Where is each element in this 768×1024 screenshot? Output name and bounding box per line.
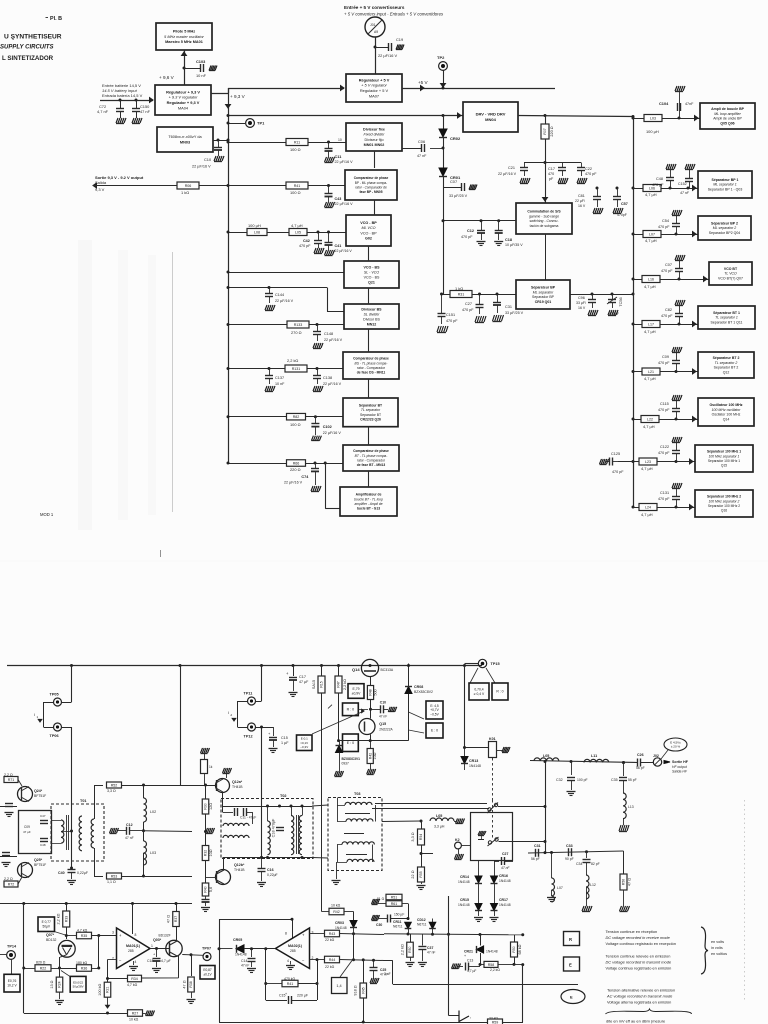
box oscillator 100 MHz Q14 bbox=[698, 398, 754, 426]
svg-text:TL separator: TL separator bbox=[361, 408, 381, 412]
svg-text:−0,3V: −0,3V bbox=[300, 745, 308, 749]
svg-text:55 pF: 55 pF bbox=[628, 778, 637, 782]
svg-text:10Ω: 10Ω bbox=[373, 752, 377, 759]
svg-text:TL VCO: TL VCO bbox=[724, 272, 737, 276]
svg-text:L23: L23 bbox=[645, 460, 651, 464]
svg-text:VCO - BS: VCO - BS bbox=[364, 265, 381, 269]
svg-text:tación de subgama: tación de subgama bbox=[530, 224, 559, 228]
svg-text:1N4148: 1N4148 bbox=[458, 903, 470, 907]
capacitor C104 bbox=[678, 117, 681, 120]
capacitor C122 bbox=[675, 460, 678, 463]
svg-text:CD12: CD12 bbox=[417, 918, 426, 922]
svg-text:rator - Comparador: rator - Comparador bbox=[357, 366, 386, 370]
svg-text:220 Ω: 220 Ω bbox=[550, 126, 554, 136]
svg-text:Q12b*: Q12b* bbox=[234, 863, 245, 867]
capacitor C12g bbox=[480, 219, 483, 222]
legend symbol E box bbox=[564, 957, 580, 971]
oscillator box MA01 Pilote 5 MHz bbox=[156, 23, 212, 50]
bus line diode network bbox=[384, 934, 523, 935]
resistor R58b bbox=[480, 964, 484, 966]
svg-text:Amplificateur de: Amplificateur de bbox=[356, 493, 382, 497]
box divider BS MN12 bbox=[344, 304, 399, 329]
svg-text:820 Ω: 820 Ω bbox=[36, 961, 46, 965]
svg-text:R40: R40 bbox=[204, 886, 208, 892]
svg-text:10 kΩ: 10 kΩ bbox=[331, 904, 341, 908]
test point TP15 bbox=[463, 664, 466, 667]
svg-text:22 µF/16 V: 22 µF/16 V bbox=[378, 53, 398, 58]
capacitor C125 bbox=[600, 459, 609, 465]
test point TP12 bbox=[248, 723, 256, 731]
inductor L03 bbox=[644, 115, 662, 122]
svg-text:T02: T02 bbox=[280, 794, 287, 798]
switch module box bbox=[471, 813, 513, 861]
T02 right windings bbox=[291, 816, 294, 855]
svg-text:+ 9,3 V: + 9,3 V bbox=[230, 94, 246, 99]
test point TP2 bbox=[439, 62, 448, 71]
svg-text:DC voltage recorded in receive: DC voltage recorded in receive mode bbox=[606, 935, 671, 940]
resistor R53 bbox=[107, 873, 122, 879]
wire filter to C32 C35 branches bbox=[570, 760, 573, 763]
svg-text:47 nF: 47 nF bbox=[140, 109, 151, 114]
Q03 emitter to TP07 bbox=[182, 954, 203, 957]
svg-text:R07: R07 bbox=[543, 128, 547, 134]
svg-text:4,7 µF: 4,7 µF bbox=[467, 969, 476, 973]
resistor R27 bbox=[24, 1013, 127, 1015]
resistor R44 bbox=[325, 956, 340, 963]
svg-text:22 µF/16 V: 22 µF/16 V bbox=[335, 249, 353, 253]
svg-text:47 µF: 47 µF bbox=[23, 830, 31, 834]
pointer to callout E0022 bbox=[61, 971, 71, 977]
T03 core bars bbox=[345, 813, 370, 815]
capacitor C137 bbox=[268, 367, 271, 370]
box VCO BS Q21 bbox=[344, 261, 399, 288]
svg-text:470 pF: 470 pF bbox=[446, 319, 458, 323]
resistor R82 bbox=[287, 413, 306, 420]
test point TP05 bbox=[70, 664, 73, 667]
capacitor C138 bbox=[316, 367, 319, 370]
svg-text:C48: C48 bbox=[40, 843, 46, 847]
T02 core bbox=[296, 815, 298, 854]
svg-text:918 Ω: 918 Ω bbox=[354, 985, 358, 995]
inductor L06 bbox=[643, 185, 661, 192]
svg-text:R82: R82 bbox=[293, 415, 300, 419]
svg-text:R36: R36 bbox=[81, 966, 88, 970]
svg-text:Entrée + 5 V convertisseurs: Entrée + 5 V convertisseurs bbox=[344, 5, 405, 10]
svg-text:CR16: CR16 bbox=[499, 874, 508, 878]
svg-text:1 µF: 1 µF bbox=[281, 741, 289, 745]
svg-text:Regulador + 9,3 V: Regulador + 9,3 V bbox=[167, 100, 200, 105]
callout lines from TP15 bbox=[470, 668, 478, 683]
svg-text:TP11: TP11 bbox=[244, 692, 253, 696]
svg-text:L08: L08 bbox=[254, 230, 260, 234]
row R133 to divider BS bbox=[228, 324, 344, 326]
wire CR01 node down to R31 row bbox=[443, 187, 445, 294]
svg-text:Régulateur + 5 V: Régulateur + 5 V bbox=[359, 77, 390, 82]
capacitor C25 bbox=[372, 959, 375, 962]
test point K2 bbox=[421, 853, 433, 855]
svg-text:TP05: TP05 bbox=[50, 693, 59, 697]
row L22 to oscillator 100MHz bbox=[632, 418, 635, 421]
test point TP14 bbox=[0, 954, 6, 956]
capacitor C151 bbox=[441, 294, 443, 313]
capacitor C31s bbox=[497, 294, 499, 302]
svg-text:0,70,4: 0,70,4 bbox=[474, 687, 483, 691]
capacitor C30 bbox=[372, 915, 380, 921]
svg-text:rator - Comparador: rator - Comparador bbox=[357, 459, 386, 463]
svg-text:R24: R24 bbox=[58, 981, 62, 987]
row R31 to separator BP bbox=[442, 294, 517, 296]
svg-text:8: 8 bbox=[285, 932, 287, 936]
svg-text:Pl. B: Pl. B bbox=[50, 16, 62, 22]
svg-text:13 Ω: 13 Ω bbox=[50, 980, 54, 988]
svg-text:1N4148: 1N4148 bbox=[235, 953, 247, 957]
opamp MA02 pin2 row bbox=[310, 959, 325, 961]
svg-text:22 µF/16 V: 22 µF/16 V bbox=[335, 160, 354, 164]
svg-text:90 pF: 90 pF bbox=[565, 857, 574, 861]
svg-text:47 nF: 47 nF bbox=[125, 836, 134, 840]
svg-text:100 µH: 100 µH bbox=[248, 223, 261, 228]
svg-text:R56: R56 bbox=[622, 879, 626, 885]
svg-text:51 Ω: 51 Ω bbox=[377, 897, 385, 901]
svg-text:E,79: E,79 bbox=[353, 687, 360, 691]
svg-text:+: + bbox=[285, 992, 287, 996]
T03 right verticals bbox=[371, 822, 373, 845]
relay contact 2 bbox=[488, 841, 491, 844]
svg-text:L05: L05 bbox=[295, 230, 301, 234]
wire MA02 top to pin8 bbox=[291, 918, 294, 921]
svg-text:R38: R38 bbox=[189, 981, 193, 987]
capacitor C34 bbox=[586, 852, 588, 858]
svg-text:C41: C41 bbox=[335, 244, 342, 248]
T02 internal bottom line bbox=[223, 857, 313, 859]
resistor R34 bbox=[128, 975, 142, 982]
capacitor C26 bbox=[637, 759, 639, 767]
svg-text:L03: L03 bbox=[150, 851, 156, 855]
svg-text:Q21: Q21 bbox=[368, 280, 375, 284]
box commutation de gamme bbox=[516, 203, 572, 234]
T03 winding 1 bbox=[345, 802, 372, 805]
svg-text:+ 5 V converters input - Entra: + 5 V converters input - Entrada + 5 V c… bbox=[344, 12, 444, 17]
svg-text:CR11: CR11 bbox=[393, 920, 402, 924]
svg-text:5 MHz master oscillator: 5 MHz master oscillator bbox=[164, 35, 204, 39]
svg-text:0,22µF: 0,22µF bbox=[77, 871, 88, 875]
svg-text:68 kΩ: 68 kΩ bbox=[518, 944, 522, 954]
wire switch node to C31 row bbox=[545, 807, 547, 854]
diodes CR14 CR16 bbox=[478, 861, 480, 877]
svg-text:1 kΩ: 1 kΩ bbox=[181, 190, 189, 195]
capacitor C152 bbox=[687, 187, 690, 190]
inductor L05b bbox=[420, 820, 423, 823]
capacitor C17b polarized bbox=[292, 664, 295, 667]
svg-text:4,7 µH: 4,7 µH bbox=[644, 329, 656, 334]
svg-text:≥ 0,4 V: ≥ 0,4 V bbox=[474, 692, 485, 696]
svg-text:C40: C40 bbox=[58, 871, 65, 875]
svg-text:C96: C96 bbox=[578, 296, 585, 300]
svg-text:100 MHz oscillator: 100 MHz oscillator bbox=[712, 408, 742, 412]
svg-text:C152: C152 bbox=[678, 182, 687, 186]
resistor R37 vertical bbox=[176, 904, 178, 912]
svg-text:Oscillateur 100 MHz: Oscillateur 100 MHz bbox=[709, 403, 742, 407]
test point TP1 bbox=[228, 123, 245, 125]
svg-text:BT - TL phase compa-: BT - TL phase compa- bbox=[355, 454, 389, 458]
transistor Q25 bbox=[18, 863, 33, 878]
svg-text:4,7 µH: 4,7 µH bbox=[643, 424, 655, 429]
svg-text:R41: R41 bbox=[287, 982, 294, 986]
svg-text:J02: J02 bbox=[653, 754, 659, 758]
svg-text:C31: C31 bbox=[505, 305, 512, 309]
svg-text:10 nF: 10 nF bbox=[275, 382, 285, 386]
scan streak bbox=[172, 252, 174, 512]
svg-text:22 µF/16 V: 22 µF/16 V bbox=[275, 299, 294, 303]
svg-text:Q14: Q14 bbox=[352, 667, 360, 672]
cap inside switch box bbox=[478, 831, 486, 836]
inductor L07f bbox=[551, 853, 553, 879]
svg-text:R131: R131 bbox=[292, 367, 301, 371]
T02 internal top line bbox=[223, 806, 313, 808]
svg-text:Ampli de uncle BP: Ampli de uncle BP bbox=[713, 117, 742, 121]
svg-text:Ampli de boucle BP: Ampli de boucle BP bbox=[711, 107, 745, 111]
capacitor C14 bbox=[251, 949, 253, 957]
svg-text:C47: C47 bbox=[40, 814, 46, 818]
Q03 base bar bbox=[169, 943, 171, 956]
svg-text:MN12: MN12 bbox=[367, 322, 377, 326]
svg-text:C138: C138 bbox=[323, 376, 332, 380]
svg-text:C07: C07 bbox=[665, 263, 672, 267]
resistor R40 vertical bbox=[202, 883, 209, 896]
capacitor C13 bbox=[452, 964, 461, 969]
T03 winding stub bbox=[337, 798, 339, 806]
svg-text:Régulateur + 9,3 V: Régulateur + 9,3 V bbox=[166, 89, 200, 94]
svg-text:BFT51F: BFT51F bbox=[34, 863, 46, 867]
opamp MA01 bbox=[132, 904, 134, 935]
svg-text:Q05 Q06: Q05 Q06 bbox=[720, 122, 734, 126]
capacitor C07 33uF bbox=[461, 183, 463, 191]
svg-text:C18: C18 bbox=[505, 238, 512, 242]
row to fixed divider bbox=[228, 142, 346, 144]
wire +5V out bbox=[402, 88, 555, 90]
inductor L02 bbox=[143, 785, 145, 798]
resistor R32 vertical bbox=[205, 845, 207, 848]
capacitor C148 bbox=[316, 323, 319, 326]
T03 bottom ground bbox=[336, 862, 338, 879]
transistor Q15b bbox=[359, 719, 375, 735]
inductor L17 bbox=[642, 321, 660, 328]
svg-text:22 µF/: 22 µF/ bbox=[575, 199, 585, 203]
box loop amplifier BT G13 bbox=[340, 487, 397, 516]
svg-text:R50: R50 bbox=[512, 946, 516, 952]
svg-text:2,2 kΩ: 2,2 kΩ bbox=[490, 968, 500, 972]
capacitor C22b bbox=[422, 934, 424, 945]
svg-text:MA04: MA04 bbox=[178, 105, 189, 110]
callout E076 bbox=[4, 974, 20, 992]
resistor R133 bbox=[287, 321, 309, 328]
callouts from module bbox=[409, 712, 425, 719]
box separator BT1 Q11 bbox=[698, 306, 755, 329]
svg-text:Tension continue en réception: Tension continue en réception bbox=[606, 929, 658, 934]
svg-text:de fase DS - MN11: de fase DS - MN11 bbox=[357, 371, 386, 375]
header text Pl. B bbox=[46, 17, 49, 19]
svg-text:BC313A: BC313A bbox=[381, 668, 394, 672]
svg-text:ML separator 1: ML separator 1 bbox=[713, 183, 737, 187]
svg-text:C81: C81 bbox=[578, 194, 585, 198]
svg-text:47 nF: 47 nF bbox=[680, 191, 690, 195]
svg-text:CR02: CR02 bbox=[450, 136, 461, 141]
diodes CR15 CR17 bbox=[478, 896, 480, 904]
callout E 0,77 bbox=[38, 917, 55, 932]
wire DRV input row bbox=[228, 115, 463, 117]
diode CR01 bbox=[439, 168, 447, 176]
svg-text:L11: L11 bbox=[591, 754, 597, 758]
svg-text:R47: R47 bbox=[337, 681, 341, 687]
resistor R45 vertical bbox=[363, 960, 365, 983]
T03 winding 4 bbox=[347, 859, 374, 862]
wire T01 bottom to R53 bbox=[94, 848, 96, 876]
oscillator box A bbox=[19, 811, 52, 854]
svg-text:R31: R31 bbox=[458, 292, 465, 296]
capacitor C19 bbox=[375, 47, 388, 49]
svg-text:150 µF: 150 µF bbox=[394, 913, 404, 917]
svg-text:Separador BT 2: Separador BT 2 bbox=[714, 366, 739, 370]
svg-text:47 Ω: 47 Ω bbox=[628, 878, 632, 886]
svg-text:R54: R54 bbox=[419, 834, 423, 840]
svg-text:+5 V: +5 V bbox=[418, 80, 429, 85]
row L06 to separator BP1 bbox=[632, 187, 635, 190]
relay dashed link 2 bbox=[492, 800, 494, 838]
svg-text:Diviseur fixe: Diviseur fixe bbox=[363, 128, 385, 132]
svg-text:R50: R50 bbox=[408, 946, 412, 952]
svg-text:L06: L06 bbox=[649, 186, 655, 190]
svg-text:R53: R53 bbox=[111, 874, 118, 878]
svg-text:DRV - VRD DRV: DRV - VRD DRV bbox=[476, 112, 506, 117]
right rail bbox=[633, 117, 635, 508]
inductor L24 bbox=[639, 504, 657, 511]
svg-text:R30: R30 bbox=[204, 803, 208, 809]
svg-text:BZX83C3V1: BZX83C3V1 bbox=[342, 757, 361, 761]
svg-text:470 pF: 470 pF bbox=[612, 470, 624, 474]
opamp MA02 pin3 row bbox=[310, 933, 325, 935]
callout E087 bbox=[200, 966, 215, 980]
svg-text:Voltage continuo registrado en: Voltage continuo registrado en recepción bbox=[606, 941, 677, 946]
svg-text:MA07: MA07 bbox=[369, 93, 379, 98]
svg-text:±0,9V: ±0,9V bbox=[352, 691, 362, 695]
svg-text:TP06: TP06 bbox=[50, 734, 59, 738]
svg-text:C37: C37 bbox=[427, 946, 433, 950]
svg-text:Tension alternative relevée en: Tension alternative relevée en émission bbox=[607, 988, 675, 993]
transistor Q24 bbox=[18, 787, 33, 802]
svg-text:HF output: HF output bbox=[672, 765, 688, 769]
box phase comparator BT MN13 bbox=[343, 445, 399, 471]
svg-text:C144: C144 bbox=[275, 293, 284, 297]
svg-text:±0,1V: ±0,1V bbox=[203, 973, 212, 977]
capacitor C41 bbox=[327, 231, 330, 234]
capacitor C96 bbox=[592, 294, 594, 299]
svg-text:Comparateur de phase: Comparateur de phase bbox=[353, 449, 389, 453]
svg-text:10: 10 bbox=[338, 138, 342, 142]
resistor R11 bbox=[286, 139, 308, 146]
capacitor C16 bbox=[260, 856, 263, 859]
svg-text:R71: R71 bbox=[8, 778, 15, 782]
capacitor C18f bbox=[156, 949, 158, 959]
svg-text:J01: J01 bbox=[370, 23, 376, 27]
svg-text:Séparateur BT 2: Séparateur BT 2 bbox=[713, 356, 740, 360]
capacitor C40 bbox=[70, 867, 73, 870]
wire separator BP to right rail bbox=[570, 294, 633, 296]
resistor R35 bbox=[66, 929, 76, 931]
svg-text:C14: C14 bbox=[241, 959, 247, 963]
svg-text:Séparateur BT: Séparateur BT bbox=[359, 403, 383, 407]
svg-text:Voltage alterna registrada en: Voltage alterna registrada en emisión bbox=[607, 1000, 671, 1005]
box separator BT2 Q12 bbox=[698, 352, 754, 378]
svg-text:22 µF/16 V: 22 µF/16 V bbox=[284, 481, 303, 485]
diode CR13 bbox=[464, 748, 466, 758]
svg-text:BD132: BD132 bbox=[46, 938, 56, 942]
svg-text:10 µF/35 V: 10 µF/35 V bbox=[505, 243, 523, 247]
svg-text:C102: C102 bbox=[323, 425, 332, 429]
wire MA01 to regulator bbox=[184, 50, 186, 85]
svg-text:1N4148: 1N4148 bbox=[335, 926, 347, 930]
svg-text:1N4148: 1N4148 bbox=[469, 764, 481, 768]
test point TP11 bbox=[260, 664, 263, 667]
svg-text:R55: R55 bbox=[419, 871, 423, 877]
svg-text:TP12: TP12 bbox=[244, 735, 253, 739]
svg-text:C16: C16 bbox=[267, 868, 274, 872]
svg-text:Q15: Q15 bbox=[379, 722, 386, 726]
svg-text:TP1: TP1 bbox=[257, 121, 265, 126]
resistor R43 bbox=[325, 930, 340, 937]
svg-text:BP - ML phase compa-: BP - ML phase compa- bbox=[355, 181, 387, 185]
row R82 to separator BT bbox=[228, 416, 343, 418]
svg-text:TP07: TP07 bbox=[202, 947, 211, 951]
svg-text:MA02(1): MA02(1) bbox=[288, 944, 303, 948]
svg-text:470 pF: 470 pF bbox=[658, 225, 670, 229]
svg-text:C12: C12 bbox=[126, 823, 133, 827]
svg-text:L16: L16 bbox=[648, 277, 654, 281]
svg-text:R37: R37 bbox=[174, 916, 178, 922]
svg-text:4,7 µH: 4,7 µH bbox=[641, 512, 653, 517]
capacitor c-base Q25 bbox=[0, 856, 17, 858]
svg-text:CR17: CR17 bbox=[499, 898, 508, 902]
svg-text:R45: R45 bbox=[361, 987, 365, 993]
svg-text:L22: L22 bbox=[647, 417, 653, 421]
svg-text:MN01 MN02: MN01 MN02 bbox=[364, 143, 385, 147]
svg-text:100 MHz separator 2: 100 MHz separator 2 bbox=[709, 499, 740, 503]
callout B 0 bbox=[343, 703, 359, 716]
svg-text:Q25*: Q25* bbox=[34, 858, 43, 862]
box DRV MN04 bbox=[463, 102, 518, 132]
svg-text:bucle BT - G13: bucle BT - G13 bbox=[357, 507, 380, 511]
svg-text:1,1 Ω: 1,1 Ω bbox=[107, 880, 116, 884]
capacitor C10m bbox=[371, 709, 381, 711]
svg-text:Separador BP: Separador BP bbox=[532, 295, 555, 299]
svg-text:C17: C17 bbox=[548, 167, 555, 171]
svg-text:MN04: MN04 bbox=[485, 117, 496, 122]
svg-text:Q03*: Q03* bbox=[153, 938, 162, 942]
zener CR07 bbox=[339, 741, 341, 746]
svg-text:16 V: 16 V bbox=[578, 306, 586, 310]
svg-text:470 pF: 470 pF bbox=[299, 244, 311, 248]
svg-text:1N4148: 1N4148 bbox=[458, 880, 470, 884]
svg-text:2,2 kΩ: 2,2 kΩ bbox=[401, 944, 405, 955]
svg-text:TP2: TP2 bbox=[437, 55, 445, 60]
inductor L21 bbox=[642, 368, 660, 375]
svg-text:100 Ω: 100 Ω bbox=[290, 190, 301, 195]
capacitor C17 bbox=[545, 162, 562, 164]
svg-text:ML separator 2: ML separator 2 bbox=[713, 226, 737, 230]
callout E 0 bbox=[343, 734, 359, 752]
svg-text:2,2 kΩ: 2,2 kΩ bbox=[343, 679, 347, 690]
relay dashed link bbox=[492, 758, 494, 800]
wire TP12 column down bbox=[261, 727, 263, 858]
